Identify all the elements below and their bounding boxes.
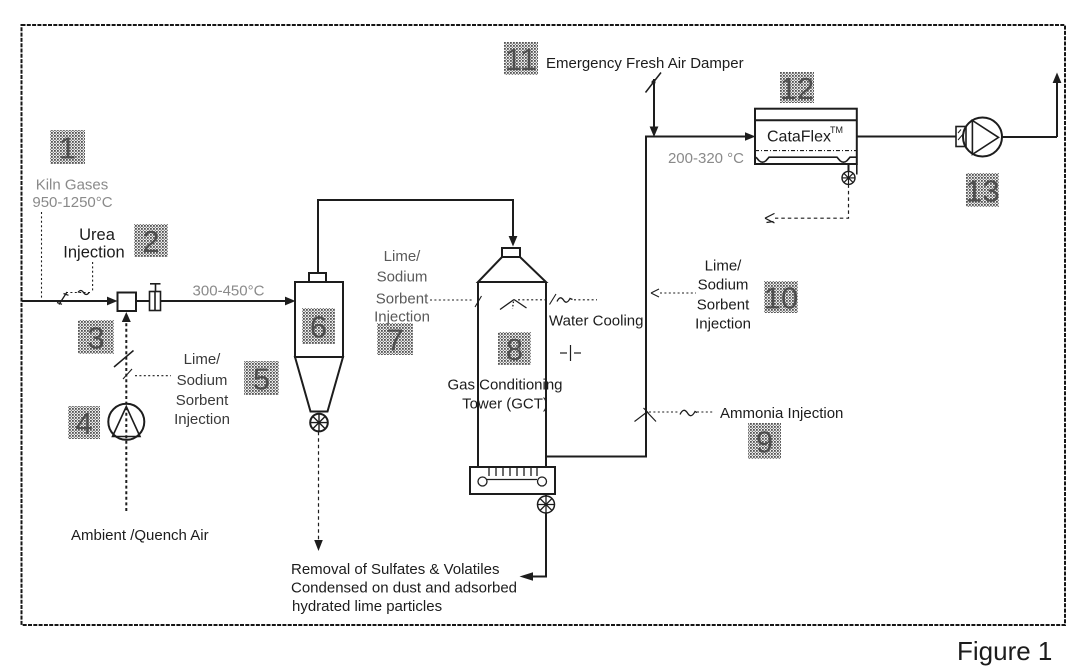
svg-text:Condensed on dust and adsorbed: Condensed on dust and adsorbed	[291, 580, 517, 597]
svg-text:Removal of Sulfates & Volatile: Removal of Sulfates & Volatiles	[291, 561, 499, 578]
svg-text:Injection: Injection	[63, 244, 124, 262]
svg-text:Urea: Urea	[79, 226, 116, 244]
svg-text:13: 13	[965, 174, 999, 209]
svg-text:8: 8	[506, 332, 523, 367]
svg-text:Gas Conditioning: Gas Conditioning	[447, 377, 562, 394]
svg-text:5: 5	[253, 362, 270, 397]
svg-text:950-1250°C: 950-1250°C	[32, 194, 112, 211]
svg-text:300-450°C: 300-450°C	[193, 283, 265, 300]
svg-text:7: 7	[386, 323, 403, 358]
svg-text:12: 12	[780, 71, 814, 106]
svg-text:200-320 °C: 200-320 °C	[668, 150, 744, 167]
svg-text:4: 4	[75, 406, 92, 441]
svg-text:Emergency Fresh Air Damper: Emergency Fresh Air Damper	[546, 55, 744, 72]
svg-text:Ambient /Quench Air: Ambient /Quench Air	[71, 527, 209, 544]
svg-text:Injection: Injection	[174, 411, 230, 428]
svg-text:Kiln Gases: Kiln Gases	[36, 177, 109, 194]
svg-text:CataFlex: CataFlex	[767, 129, 831, 146]
svg-text:Figure 1: Figure 1	[957, 636, 1052, 666]
svg-text:11: 11	[505, 42, 537, 77]
svg-text:Lime/: Lime/	[384, 248, 422, 265]
svg-text:3: 3	[87, 321, 104, 356]
svg-text:Sodium: Sodium	[698, 277, 749, 294]
svg-text:1: 1	[59, 131, 76, 166]
svg-text:Sorbent: Sorbent	[176, 392, 229, 409]
svg-text:2: 2	[142, 224, 159, 259]
svg-text:TM: TM	[830, 125, 843, 135]
svg-text:Sorbent: Sorbent	[697, 297, 750, 314]
svg-text:Lime/: Lime/	[184, 351, 222, 368]
svg-text:Lime/: Lime/	[705, 258, 743, 275]
svg-text:Sodium: Sodium	[377, 269, 428, 286]
svg-text:Injection: Injection	[374, 309, 430, 326]
svg-text:hydrated lime particles: hydrated lime particles	[292, 598, 442, 615]
svg-text:Water Cooling: Water Cooling	[549, 313, 643, 330]
svg-text:6: 6	[310, 310, 327, 345]
svg-text:Ammonia Injection: Ammonia Injection	[720, 405, 843, 422]
svg-text:Sodium: Sodium	[177, 372, 228, 389]
svg-text:10: 10	[764, 281, 798, 316]
svg-text:Sorbent: Sorbent	[376, 291, 429, 308]
svg-text:9: 9	[756, 425, 773, 460]
svg-text:Tower (GCT): Tower (GCT)	[462, 396, 548, 413]
svg-text:Injection: Injection	[695, 316, 751, 333]
